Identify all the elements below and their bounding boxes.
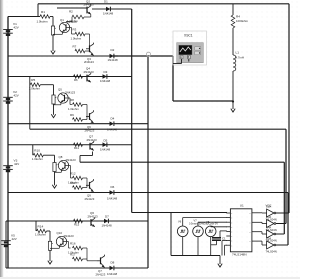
svg-text:1.0kohm: 1.0kohm [68, 107, 79, 111]
svg-text:R1: R1 [41, 10, 45, 14]
svg-text:x: x [231, 236, 232, 238]
svg-text:U5A: U5A [266, 237, 271, 241]
svg-text:x: x [250, 222, 251, 224]
svg-text:VCC: VCC [266, 203, 272, 207]
svg-text:Q8: Q8 [59, 155, 63, 159]
svg-text:R7: R7 [73, 45, 77, 49]
svg-text:42V: 42V [14, 94, 19, 98]
svg-text:U4A: U4A [266, 226, 271, 230]
svg-text:2N4123: 2N4123 [84, 2, 95, 6]
svg-text:R6: R6 [74, 78, 78, 82]
svg-text:x: x [231, 213, 232, 215]
svg-text:x: x [231, 227, 232, 229]
svg-text:D1: D1 [104, 0, 108, 4]
svg-text:x: x [231, 222, 232, 224]
svg-text:R16: R16 [70, 242, 76, 246]
svg-text:C1: C1 [222, 237, 226, 241]
svg-text:2N4123: 2N4123 [85, 197, 95, 201]
svg-text:R15: R15 [74, 222, 80, 226]
svg-text:1.0kohm: 1.0kohm [29, 86, 41, 90]
svg-text:U3A: U3A [266, 215, 271, 219]
svg-text:1.0kohm: 1.0kohm [67, 19, 78, 23]
svg-text:x: x [231, 245, 232, 247]
svg-text:R2: R2 [69, 9, 73, 13]
svg-text:L1: L1 [236, 51, 240, 55]
svg-text:R14: R14 [38, 224, 44, 228]
svg-text:1N4148: 1N4148 [108, 58, 119, 62]
svg-text:R8: R8 [70, 98, 74, 102]
svg-text:1000ohm: 1000ohm [236, 19, 249, 23]
svg-text:Q1: Q1 [60, 18, 64, 22]
svg-text:1N4148: 1N4148 [107, 128, 118, 132]
svg-text:1.0kohm: 1.0kohm [71, 36, 82, 40]
svg-text:4.7mH: 4.7mH [236, 56, 245, 60]
svg-text:1N4148: 1N4148 [102, 224, 113, 228]
svg-text:2N4123: 2N4123 [66, 158, 77, 162]
svg-text:D2: D2 [111, 48, 115, 52]
svg-text:R10: R10 [34, 149, 40, 153]
svg-text:1.0kohm: 1.0kohm [35, 233, 47, 237]
svg-text:74LS04N: 74LS04N [266, 249, 277, 253]
svg-text:x: x [250, 213, 251, 215]
svg-text:2N4123: 2N4123 [64, 234, 75, 238]
svg-text:x: x [250, 241, 251, 243]
svg-text:2N4123: 2N4123 [65, 91, 76, 95]
svg-text:1.0kohm: 1.0kohm [32, 157, 44, 161]
svg-text:V6: V6 [178, 219, 182, 223]
svg-text:XSC1: XSC1 [184, 34, 193, 38]
svg-text:x: x [231, 232, 232, 234]
svg-text:D7: D7 [105, 215, 109, 219]
svg-text:R5: R5 [31, 78, 35, 82]
svg-text:Q5: Q5 [58, 87, 62, 91]
svg-text:74LS148N: 74LS148N [232, 253, 247, 257]
svg-text:42V: 42V [14, 26, 19, 30]
svg-text:1N4148: 1N4148 [100, 147, 111, 151]
svg-text:D8: D8 [111, 261, 115, 265]
svg-text:1N4148: 1N4148 [103, 12, 114, 16]
svg-text:R11: R11 [74, 146, 79, 150]
svg-text:R17: R17 [70, 253, 76, 257]
svg-text:2N4123: 2N4123 [96, 273, 106, 277]
svg-text:D5: D5 [104, 138, 108, 142]
svg-text:V7: V7 [194, 218, 198, 222]
svg-text:D3: D3 [104, 70, 108, 74]
svg-text:2N4123: 2N4123 [85, 128, 95, 132]
svg-text:R13: R13 [70, 181, 76, 185]
svg-text:R9: R9 [70, 113, 74, 117]
svg-text:x: x [231, 241, 232, 243]
svg-text:1N4148: 1N4148 [100, 79, 111, 83]
svg-text:1N4148: 1N4148 [107, 272, 118, 276]
svg-text:0.5msec 50%DutyCycle 5V: 0.5msec 50%DutyCycle 5V [189, 223, 218, 226]
svg-text:1.0kohm: 1.0kohm [37, 20, 49, 24]
svg-text:D6: D6 [111, 185, 115, 189]
svg-text:D4: D4 [111, 116, 115, 120]
svg-text:R3: R3 [73, 28, 77, 32]
svg-text:2N4123: 2N4123 [87, 138, 98, 142]
svg-text:2N4123: 2N4123 [84, 60, 94, 64]
svg-text:x: x [231, 218, 232, 220]
svg-text:R12: R12 [70, 172, 76, 176]
svg-text:2N4123: 2N4123 [88, 214, 99, 218]
svg-text:2N4123: 2N4123 [84, 70, 95, 74]
svg-text:U1: U1 [240, 203, 244, 207]
svg-text:1N4148: 1N4148 [107, 196, 118, 200]
svg-text:x: x [250, 232, 251, 234]
svg-text:42V: 42V [12, 237, 17, 241]
svg-text:Q10: Q10 [57, 231, 63, 235]
svg-text:42V: 42V [14, 162, 19, 166]
